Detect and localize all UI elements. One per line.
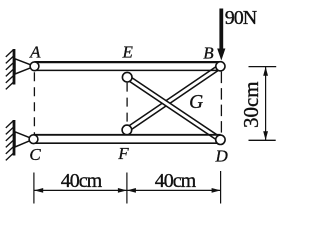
pin circle D <box>216 135 225 144</box>
pin circle B <box>216 62 225 71</box>
dim arrows at middle tick <box>118 188 127 193</box>
svg-text:30cm: 30cm <box>239 81 263 128</box>
svg-text:B: B <box>203 44 214 63</box>
top bar AB <box>35 62 222 70</box>
svg-text:F: F <box>117 144 129 163</box>
bottom dimension line <box>34 189 220 191</box>
force arrow shaft 90N <box>219 9 223 51</box>
svg-text:D: D <box>214 147 228 166</box>
wall hatching at A <box>6 50 14 90</box>
pin circle E <box>122 72 132 82</box>
pin circle A <box>30 62 39 71</box>
right dimension tick top <box>249 66 277 68</box>
dim arrow left (at A) <box>34 188 43 193</box>
wall line at C <box>13 120 16 156</box>
bottom bar CD <box>34 135 221 143</box>
svg-text:A: A <box>29 43 41 62</box>
pin bracket (triangle) at C <box>15 132 34 147</box>
pin bracket (triangle) at A <box>15 59 35 74</box>
dim arrow right (at D) <box>212 188 221 193</box>
extension line below B/D <box>220 171 222 204</box>
wall hatching at C <box>6 121 14 161</box>
extension line below A/C <box>33 173 35 204</box>
svg-text:C: C <box>29 145 41 164</box>
dashed line A-C <box>33 72 35 134</box>
diagonal bar FB <box>127 66 220 130</box>
right dim arrow up <box>263 67 268 76</box>
svg-text:E: E <box>122 43 134 62</box>
diagonal bar ED (drawn in front) <box>127 77 220 140</box>
right dimension line 30cm <box>265 67 267 140</box>
wall line at A <box>13 49 16 85</box>
svg-text:G: G <box>189 92 203 113</box>
extension line below E/F <box>126 173 128 204</box>
pin circle C <box>29 135 38 144</box>
svg-text:40cm: 40cm <box>61 170 103 192</box>
pin circle F <box>122 125 132 135</box>
right dimension tick bottom <box>249 139 276 141</box>
svg-text:40cm: 40cm <box>155 170 197 192</box>
dashed line B-D <box>220 72 222 135</box>
dashed line E-F <box>126 83 128 125</box>
svg-text:90N: 90N <box>225 7 257 29</box>
force arrowhead <box>217 49 225 61</box>
right dim arrow down <box>263 131 268 140</box>
